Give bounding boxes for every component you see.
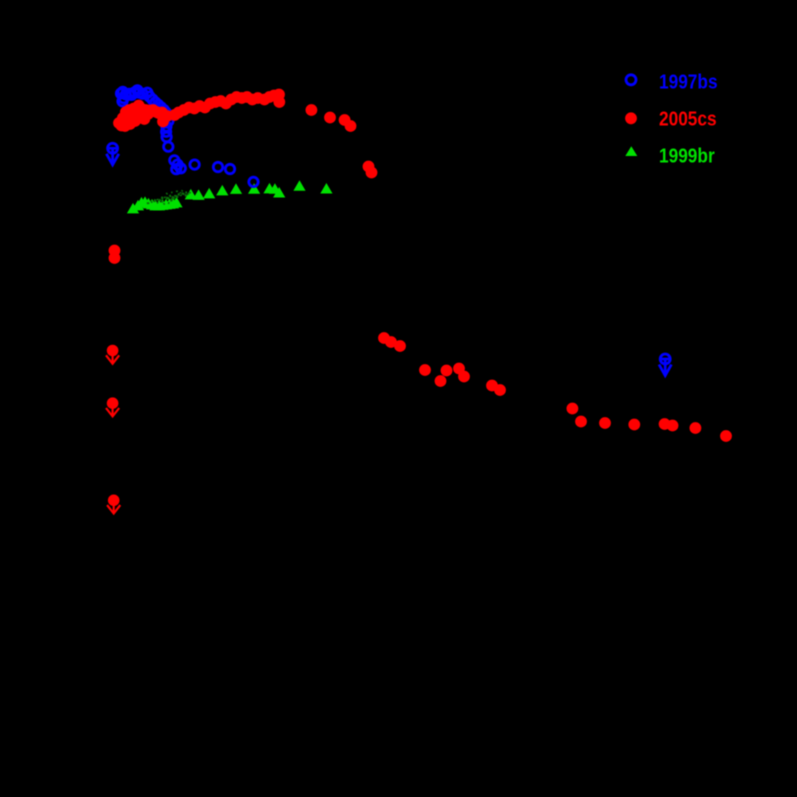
svg-text:2005cs: 2005cs <box>659 107 717 129</box>
svg-text:1997bs: 1997bs <box>659 70 718 92</box>
legend marker 2005cs <box>625 112 637 124</box>
blue upper-limit arrow 2 <box>659 354 671 376</box>
legend marker 1999br <box>625 146 637 156</box>
series 1997bs: blue open circles <box>116 86 258 187</box>
red upper-limit arrow 2 <box>106 397 119 416</box>
svg-text:1999br: 1999br <box>659 144 715 166</box>
blue upper-limit arrow 1 <box>106 143 118 165</box>
red upper-limit arrow 3 <box>107 495 120 514</box>
series 1999br: green triangles <box>127 180 333 213</box>
legend marker 1997bs <box>626 75 636 85</box>
dark green scribble fragments <box>147 190 191 205</box>
red upper-limit arrow 1 <box>106 345 119 364</box>
series 2005cs: red filled circles <box>109 89 732 442</box>
